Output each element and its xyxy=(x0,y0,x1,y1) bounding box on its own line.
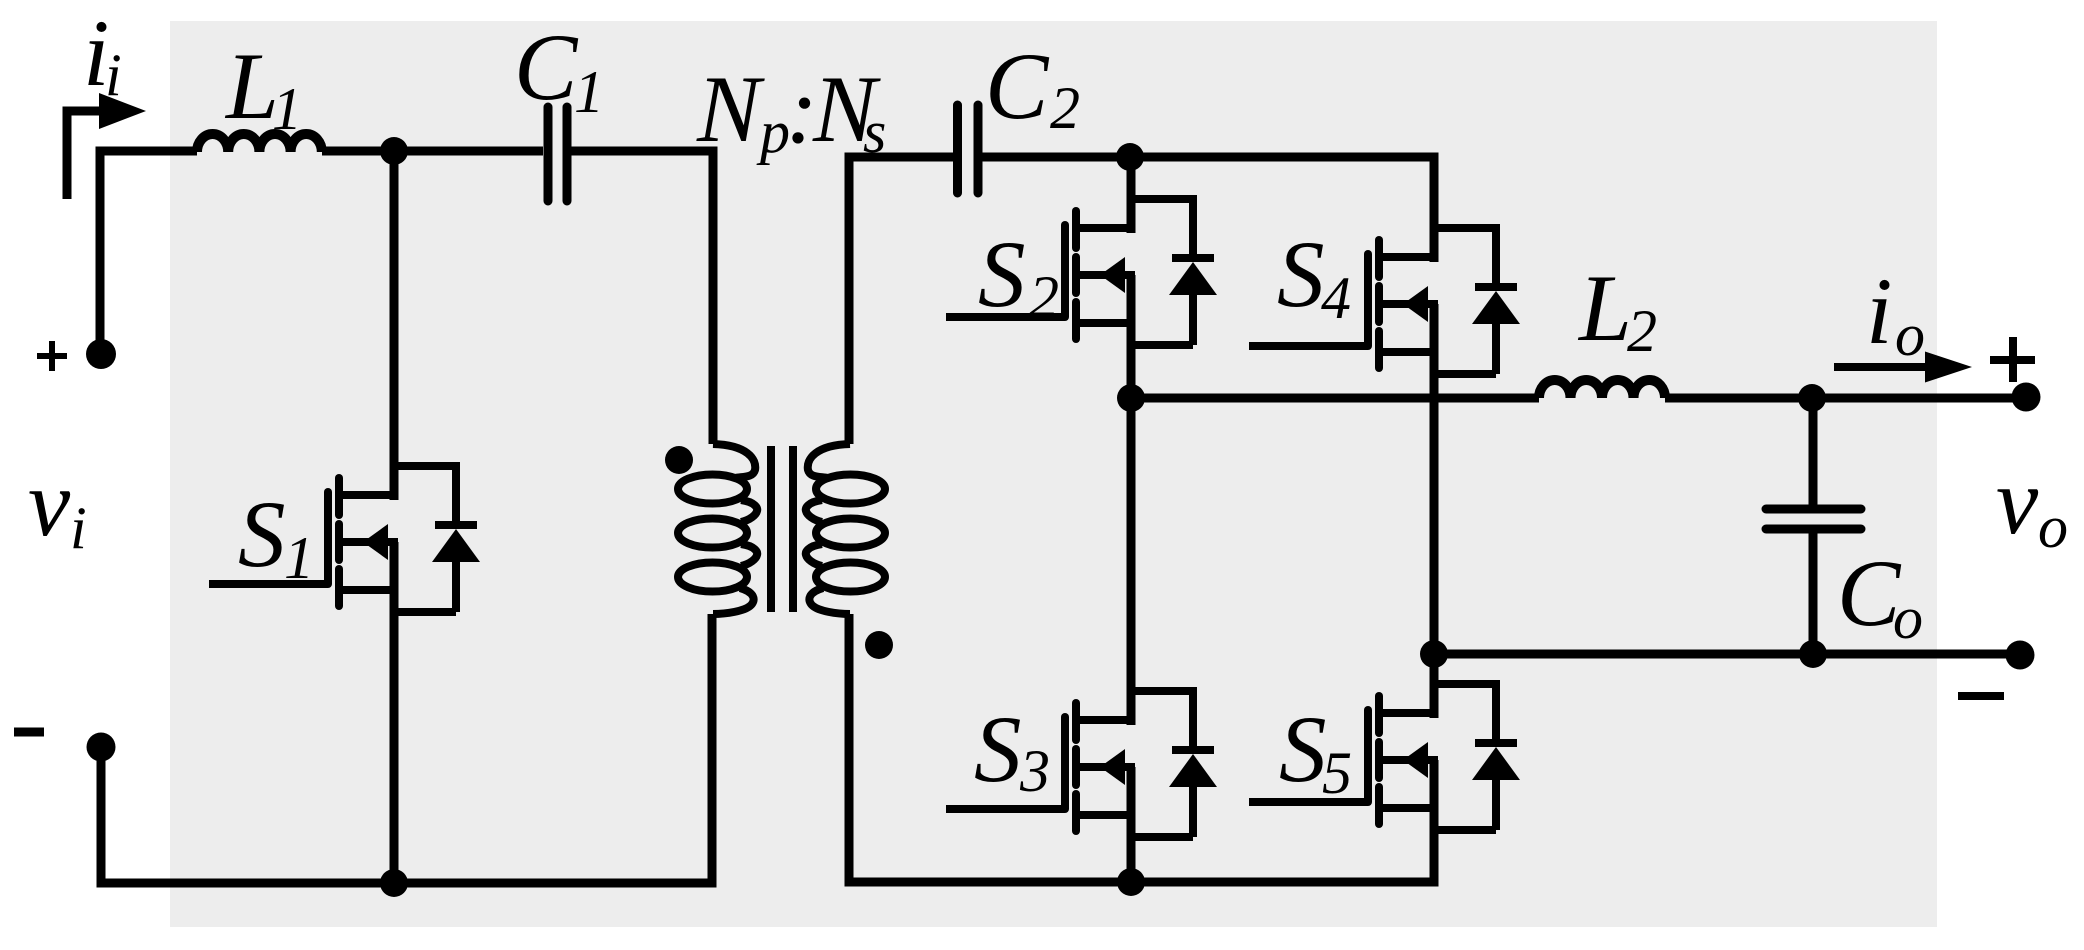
current arrow i_o xyxy=(1834,363,1930,371)
wire output bottom rail xyxy=(1434,650,2020,659)
transistor S2 MOSFET with body diode xyxy=(946,199,1217,345)
transistor S3 MOSFET with body diode xyxy=(946,691,1217,837)
wire input top xyxy=(100,151,197,354)
node B C2-S2-S4 junction xyxy=(1116,143,1144,171)
svg-text:2: 2 xyxy=(1627,298,1657,364)
svg-text:S: S xyxy=(1277,221,1325,327)
svg-text:S: S xyxy=(1279,696,1327,802)
node plus output terminal xyxy=(2012,383,2041,412)
wire S1 drain xyxy=(390,151,399,500)
svg-text:4: 4 xyxy=(1321,265,1351,331)
svg-text:S: S xyxy=(974,696,1022,802)
svg-text:1: 1 xyxy=(574,59,604,125)
wire Co top xyxy=(1809,398,1818,505)
capacitor C2 xyxy=(958,105,979,193)
node bottom-left junction xyxy=(380,869,408,897)
transformer polarity dot primary xyxy=(665,446,693,474)
svg-text:3: 3 xyxy=(1019,738,1050,804)
svg-text:v: v xyxy=(1996,448,2039,554)
node L2-Co junction xyxy=(1798,384,1826,412)
svg-text:2: 2 xyxy=(1050,75,1080,141)
capacitor C1 xyxy=(548,107,567,201)
transformer primary winding Np xyxy=(678,444,757,614)
inductor L1 xyxy=(197,134,322,152)
wire bottom bridge rail xyxy=(849,614,1434,882)
node S4-S5 midpoint xyxy=(1420,640,1448,668)
node S2-S3 midpoint xyxy=(1117,384,1145,412)
svg-text:S: S xyxy=(978,221,1026,327)
wire Co bottom xyxy=(1809,533,1818,654)
wire S1 source to bottom rail xyxy=(390,542,399,883)
svg-text:5: 5 xyxy=(1322,740,1352,806)
terminal plus output xyxy=(1990,337,2035,382)
svg-text:p: p xyxy=(756,99,790,165)
terminal plus input xyxy=(37,341,67,371)
svg-text:o: o xyxy=(1895,302,1925,368)
wire S3 drain xyxy=(1127,398,1136,725)
wire S3 source to bottom rail xyxy=(1127,767,1136,882)
svg-text:o: o xyxy=(1893,585,1923,651)
node L1-C1-S1 junction xyxy=(380,137,408,165)
transistor S1 MOSFET with body diode xyxy=(209,466,480,612)
wire C1 to transformer primary xyxy=(571,151,713,444)
wire top rail to S4 drain xyxy=(1130,157,1434,262)
current arrow i_i xyxy=(67,111,108,199)
wire S5 drain xyxy=(1430,654,1439,718)
svg-text:v: v xyxy=(28,450,71,556)
inductor L2 xyxy=(1539,380,1665,398)
node bottom bridge junction xyxy=(1117,868,1145,896)
wire mid rail to L2 xyxy=(1131,394,1539,403)
capacitor Co xyxy=(1766,509,1861,529)
wire S4 source to node xyxy=(1430,304,1439,653)
transformer polarity dot secondary xyxy=(865,631,893,659)
node minus output terminal xyxy=(2006,641,2035,670)
wire bottom left rail xyxy=(101,614,712,883)
transformer core xyxy=(771,446,793,612)
svg-text:S: S xyxy=(238,481,286,587)
svg-text:o: o xyxy=(2038,494,2068,560)
wire C2 to node B xyxy=(982,153,1130,162)
svg-text:C: C xyxy=(985,33,1050,139)
svg-text:i: i xyxy=(70,495,87,561)
svg-text:2: 2 xyxy=(1029,264,1059,330)
wire S2 drain xyxy=(1127,157,1136,233)
node Co bottom junction xyxy=(1799,640,1827,668)
svg-text:1: 1 xyxy=(284,525,314,591)
transformer secondary winding Ns xyxy=(806,444,885,614)
node minus input terminal xyxy=(87,733,116,762)
svg-text:L: L xyxy=(224,33,279,139)
node plus input terminal xyxy=(86,339,116,369)
svg-text:1: 1 xyxy=(272,76,302,142)
terminal minus input xyxy=(14,728,44,737)
transistor S4 MOSFET with body diode xyxy=(1249,228,1520,374)
transistor S5 MOSFET with body diode xyxy=(1249,684,1520,830)
svg-text:N: N xyxy=(696,56,765,162)
wire transformer secondary top to C2 xyxy=(849,157,953,444)
wire L1 to C1 xyxy=(322,147,543,156)
svg-text:L: L xyxy=(1577,255,1632,361)
terminal minus output xyxy=(1958,692,2004,700)
svg-text:C: C xyxy=(514,14,579,120)
svg-text:i: i xyxy=(1866,258,1892,364)
wire L2 to plus output xyxy=(1665,394,2025,403)
wire S2 source to node xyxy=(1127,275,1136,398)
